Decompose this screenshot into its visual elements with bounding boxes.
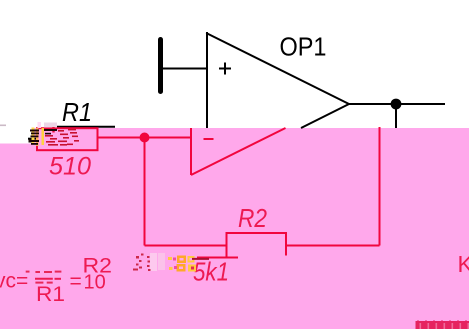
svg-text:R1: R1	[62, 97, 92, 127]
svg-text:R2: R2	[83, 254, 113, 277]
svg-text:K: K	[458, 251, 469, 277]
svg-text:R2: R2	[238, 203, 267, 233]
svg-text:OP1: OP1	[280, 32, 327, 62]
svg-text:510: 510	[49, 153, 91, 181]
svg-text:=: =	[70, 270, 82, 293]
svg-text:R1: R1	[36, 283, 65, 306]
svg-text:vc=: vc=	[0, 270, 28, 293]
svg-text:5k1: 5k1	[193, 257, 229, 287]
